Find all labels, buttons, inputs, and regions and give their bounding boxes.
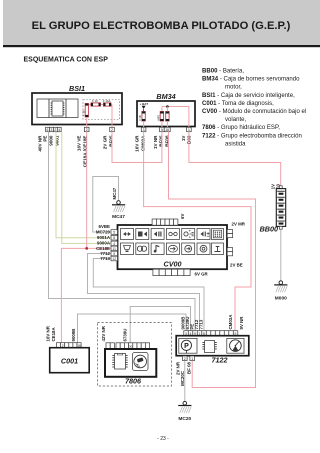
svg-text:CM03A: CM03A [141,135,146,151]
svg-text:2V GR: 2V GR [103,135,108,149]
+BAT marker [140,102,149,111]
7806 connector pins [106,343,150,349]
C001 connector pins [57,343,82,348]
svg-text:6VBE: 6VBE [99,224,111,229]
ground MC20 [178,401,191,422]
BM34 pin 5 [160,127,165,132]
BSI1 pin 6 [46,127,50,132]
svg-text:MC20C: MC20C [180,370,185,386]
BSI1 pin 2 [53,127,57,132]
7122 box [176,336,249,356]
svg-text:7806: 7806 [125,377,142,386]
svg-text:BF05: BF05 [109,135,114,147]
wire PE [49,132,196,331]
svg-text:1: 1 [191,357,193,361]
wire BF08 inside BM34 [166,107,168,128]
svg-text:12: 12 [112,257,116,261]
wire to fuse MF5 [161,107,163,112]
svg-text:1: 1 [188,128,190,132]
BM34 pin 3 [141,127,146,132]
label 16V GR CM03A [135,135,146,152]
wire B03 [189,132,281,186]
wire 6739U [130,307,190,344]
CV00 switch icons row 1 [121,229,224,240]
7806 ESP icon [133,353,149,371]
svg-text:MF5: MF5 [156,114,160,120]
wire CE18A branch to C001 [61,248,86,342]
svg-text:6: 6 [47,128,49,132]
svg-text:11: 11 [113,247,117,251]
svg-text:BM34 - Caja de bornes servoman: BM34 - Caja de bornes servomando [202,77,300,83]
svg-text:9V NR: 9V NR [239,316,244,330]
BSI1 box [32,93,122,125]
svg-text:4: 4 [58,128,60,132]
ground M000 [274,281,287,302]
wire BM34 internal bus [162,106,189,108]
CV00 bottom connector [153,269,190,275]
svg-text:9: 9 [113,252,115,256]
svg-text:7713: 7713 [198,319,203,329]
svg-text:6V GR: 6V GR [195,272,209,277]
svg-text:2: 2 [184,357,186,361]
svg-text:9009B: 9009B [71,329,76,342]
svg-text:BSI1 - Caja de servicio inteli: BSI1 - Caja de servicio inteligente, [202,93,295,99]
svg-text:- 23 -: - 23 - [157,436,169,442]
svg-text:7713: 7713 [100,256,110,261]
svg-text:6739U: 6739U [123,329,128,342]
svg-text:2V MR: 2V MR [232,222,246,227]
wire MC720 to ground MC47 [93,177,119,233]
BSI1 pin 3 [50,127,54,132]
junction CE18A [85,247,88,250]
svg-text:BF05: BF05 [159,135,164,147]
wire 7712 [88,254,200,331]
CV00 top connector [152,219,178,225]
svg-text:CV00: CV00 [164,260,182,269]
svg-text:volante,: volante, [225,117,246,123]
label 1V B03 [181,135,192,144]
svg-text:F 19: F 19 [92,99,98,103]
svg-text:MC20: MC20 [178,416,191,422]
label 1V NR BF05 BF08 [153,135,170,149]
ground MC47 [112,201,125,220]
svg-text:PE: PE [43,136,48,142]
wire CE18A branch to CV00 [87,132,111,249]
wire 9009B [78,314,187,343]
svg-text:2: 2 [54,128,56,132]
svg-text:P: P [184,343,189,350]
fuse MF5 BM34 [156,112,163,122]
BSI1 pin 2 CE18A [84,127,89,132]
wire 7713 [93,259,204,331]
svg-text:CE18A: CE18A [51,327,56,342]
CV00 right connector 2V BE [227,248,232,256]
BSI1 pin 4 [57,127,61,132]
7122 bottom pins 2 1 [183,356,195,361]
title bar [3,0,320,47]
BSI1 pin 2 BF05 [110,127,115,132]
svg-text:5: 5 [161,128,163,132]
svg-text:9000: 9000 [49,135,54,146]
svg-text:16V VE: 16V VE [77,136,82,152]
svg-text:+ BAT: + BAT [140,102,149,106]
wire BF05 inside BSI1 [111,105,113,128]
svg-text:MC47: MC47 [112,214,125,220]
svg-text:BSI1: BSI1 [69,84,85,93]
svg-text:2: 2 [86,128,88,132]
label 16V VE CE18A/CE18E [77,136,88,168]
7122 motor icon [227,338,244,353]
label 2V GR BF05 [103,135,114,149]
svg-text:M000: M000 [275,296,287,302]
svg-text:F 16A: F 16A [103,99,111,103]
svg-text:asistida: asistida [225,141,246,147]
label 40V NR PE [38,135,48,152]
fuse F16A (horizontal) [103,99,111,106]
wire battery to ground [280,229,282,281]
svg-text:2: 2 [111,128,113,132]
7806 IC icon [112,354,127,370]
label 1V B03 battery [271,183,281,192]
svg-text:C001: C001 [61,357,78,366]
BSI1 IC U1 [51,101,65,116]
wire CE18A inside BSI1 [86,117,88,128]
wire 9001 [62,132,111,244]
wire CM03A [144,132,251,331]
svg-text:5: 5 [113,231,115,235]
svg-text:3: 3 [50,128,52,132]
svg-text:7806 - Grupo hidráulico ESP,: 7806 - Grupo hidráulico ESP, [202,125,280,131]
BSI1 connector block [37,99,78,118]
svg-text:1V: 1V [181,135,186,142]
wire MC20C [184,361,186,402]
7806 dashed box [98,323,172,387]
svg-text:MC720: MC720 [96,230,111,235]
svg-text:BF 08: BF 08 [186,361,191,374]
BSI1 fuse area dashed box [83,100,120,120]
svg-text:F1B: F1B [138,115,142,120]
CV00 left connector pins [111,230,118,261]
junction BM34 [166,105,169,108]
CV00 box [118,225,228,269]
wire BSI1 internal feed [88,104,112,106]
svg-text:16V NR: 16V NR [46,325,51,341]
svg-text:16V GR: 16V GR [135,135,140,152]
svg-text:7122: 7122 [212,356,228,365]
svg-text:BM34: BM34 [156,92,175,101]
svg-text:1V NR: 1V NR [153,135,158,149]
7122 pump icon [179,338,197,353]
svg-text:BB00: BB00 [260,225,278,234]
svg-text:motor,: motor, [225,85,242,91]
svg-text:ESQUEMATICA CON ESP: ESQUEMATICA CON ESP [24,57,109,64]
fuse F18 (vertical) [81,104,88,118]
svg-text:6V: 6V [180,214,185,219]
svg-text:8: 8 [113,236,115,240]
fuse F18 BM34 [138,112,145,122]
wire BF05 link [112,132,162,163]
svg-text:42V NR: 42V NR [101,325,106,341]
wire CM03A inside BM34 [143,121,145,128]
battery BB00 [276,186,285,229]
BM34 pin 16 [164,127,170,132]
fuse MF6 BM34 [166,112,169,122]
svg-text:CM03A: CM03A [228,314,233,330]
svg-text:9001A: 9001A [97,235,111,240]
C001 box [50,348,89,373]
BM34 box [137,101,195,127]
7122 IC icon [202,341,216,353]
svg-text:4: 4 [113,242,115,246]
svg-text:9001: 9001 [55,135,60,146]
svg-text:MC47: MC47 [112,187,117,199]
wire BF05 inside BM34 [161,121,163,128]
svg-text:3: 3 [143,128,145,132]
wire 9000 [56,132,111,238]
svg-text:CV00 - Módulo de conmutación b: CV00 - Módulo de conmutación bajo el [202,109,306,115]
svg-text:C001 - Toma de diagnosis,: C001 - Toma de diagnosis, [202,101,274,107]
7122 top connector [184,331,238,336]
CV00 switch icons row 2 [121,243,224,255]
svg-text:2V BE: 2V BE [230,263,243,268]
7806 box [105,349,156,377]
svg-text:7122 - Grupo electrobomba dire: 7122 - Grupo electrobomba dirección [202,133,302,139]
label 16V NR CE18A [46,325,57,341]
BM34 pin 1 [187,127,192,132]
legend [202,69,306,148]
wire BF08 [169,132,256,388]
svg-text:BB00 - Batería,: BB00 - Batería, [202,69,244,75]
svg-text:EL GRUPO ELECTROBOMBA PILOTADO: EL GRUPO ELECTROBOMBA PILOTADO (G.E.P.) [32,20,291,32]
fuse F19 (horizontal) [91,99,101,106]
CV00 right connector 2V MR [227,230,232,238]
svg-text:16: 16 [165,128,169,132]
wire B03 inside BM34 [188,107,190,128]
